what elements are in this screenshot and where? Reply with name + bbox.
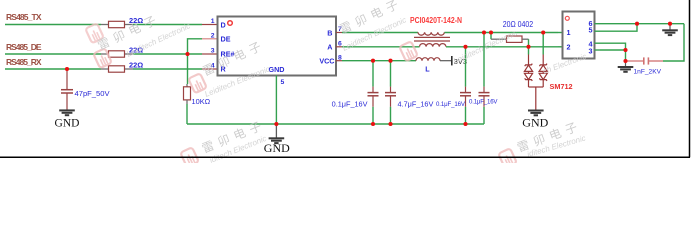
svg-text:47pF_50V: 47pF_50V bbox=[75, 89, 111, 98]
pin 1 lead bbox=[202, 18, 218, 25]
svg-text:B: B bbox=[327, 28, 332, 37]
common mode choke PCI0420T-142-N bbox=[410, 16, 462, 47]
connector J1 bbox=[563, 12, 595, 59]
wire RS485_RX bbox=[5, 68, 101, 70]
pin 5 GND drop bbox=[276, 76, 284, 125]
pin 7 lead B bbox=[336, 26, 342, 33]
pin 3 lead bbox=[202, 48, 218, 55]
watermark stamp bottom bbox=[498, 118, 586, 168]
ground GND under IC bbox=[264, 124, 290, 155]
TVS diode SM712 bbox=[524, 47, 572, 110]
resistor R_DE 22ohm bbox=[101, 46, 143, 58]
svg-text:8: 8 bbox=[338, 54, 342, 61]
junction VCC cap2 bbox=[388, 59, 392, 63]
wire 1nF to pin6 wire bbox=[663, 24, 684, 61]
wire A after choke bbox=[446, 46, 558, 48]
pin 8 lead VCC bbox=[336, 54, 342, 61]
capacitor C3 0.1uF_16V on A line bbox=[436, 47, 471, 124]
ground earth top right bbox=[662, 24, 678, 35]
capacitor 1nF_2KV bbox=[626, 57, 664, 75]
junction cap 1nF left bbox=[623, 59, 627, 63]
wire pin6 to earth bbox=[600, 23, 684, 25]
svg-text:RS485_DE: RS485_DE bbox=[6, 42, 42, 52]
op-amp U1 RS485 transceiver box bbox=[218, 17, 337, 76]
svg-text:5: 5 bbox=[281, 79, 285, 86]
pin 2 lead bbox=[202, 33, 218, 40]
wire ground rail bbox=[187, 123, 484, 125]
svg-text:L: L bbox=[425, 65, 430, 74]
ground earth 1nF bbox=[618, 61, 634, 72]
wire VCC bbox=[342, 60, 416, 62]
wire RS485_TX bbox=[5, 24, 101, 26]
frame border bbox=[0, 0, 690, 157]
wire DE up to pin2 bbox=[188, 39, 203, 54]
svg-text:SM712: SM712 bbox=[550, 82, 573, 91]
capacitor C1 0.1uF_16V bbox=[332, 61, 379, 124]
watermark stamp left bbox=[85, 11, 191, 68]
pin 6 lead bbox=[595, 23, 601, 25]
capacitor C2 4.7uF_16V bbox=[385, 61, 433, 124]
pin 3 lead bbox=[595, 49, 601, 51]
junction rail cap2 bbox=[388, 122, 392, 126]
junction A cap3 bbox=[463, 45, 467, 49]
junction rail cap3 bbox=[463, 122, 467, 126]
svg-text:1: 1 bbox=[567, 28, 571, 37]
junction DE node bbox=[185, 52, 189, 56]
svg-text:5: 5 bbox=[589, 25, 593, 34]
svg-text:4.7μF_16V: 4.7μF_16V bbox=[398, 99, 434, 108]
svg-text:3: 3 bbox=[589, 46, 593, 55]
wire B from pin7 bbox=[342, 32, 418, 34]
pin 1 lead connector bbox=[558, 32, 563, 34]
resistor 20R 0402 termination bbox=[491, 20, 534, 47]
capacitor C4 0.1uF_16V on B line bbox=[469, 33, 498, 125]
svg-text:1: 1 bbox=[211, 18, 215, 25]
net label RS485_DE bbox=[6, 42, 42, 52]
svg-text:GND: GND bbox=[55, 117, 80, 129]
resistor R_RX 22ohm bbox=[101, 61, 143, 73]
junction A 20R bbox=[526, 45, 530, 49]
junction rail cap1 bbox=[371, 122, 375, 126]
net label RS485_RX bbox=[6, 57, 42, 67]
svg-text:RS485_RX: RS485_RX bbox=[6, 57, 42, 67]
pin 4 lead bbox=[595, 42, 601, 44]
wire RS485_DE bbox=[5, 53, 101, 55]
watermark script right bbox=[542, 52, 588, 76]
wire pin4 down bbox=[600, 43, 626, 61]
power 3V3 bbox=[440, 56, 467, 66]
watermark stamp bottom-left bbox=[180, 117, 268, 167]
junction VCC cap1 bbox=[371, 59, 375, 63]
wire B after choke bbox=[445, 32, 559, 34]
pin 2 lead connector bbox=[558, 46, 563, 48]
pin 4 lead bbox=[202, 63, 218, 70]
svg-text:GND: GND bbox=[522, 116, 548, 130]
watermark script over choke bbox=[452, 28, 519, 65]
junction RX node bbox=[65, 67, 69, 71]
wire RX to pin4 bbox=[133, 68, 202, 70]
svg-text:GND: GND bbox=[264, 141, 290, 155]
U1 inversion circle bbox=[228, 21, 233, 26]
junction pin3-pin4 bbox=[623, 48, 627, 52]
wire TX to pin1 bbox=[133, 24, 202, 26]
inductor L bbox=[416, 58, 440, 74]
capacitor 47pF_50V bbox=[61, 69, 110, 110]
wire B to SM712 bbox=[542, 33, 544, 55]
svg-text:2: 2 bbox=[211, 33, 215, 40]
svg-text:RS485_TX: RS485_TX bbox=[6, 12, 42, 22]
svg-text:0.1μF_16V: 0.1μF_16V bbox=[469, 99, 498, 106]
svg-text:A: A bbox=[327, 43, 332, 52]
svg-text:1nF_2KV: 1nF_2KV bbox=[634, 68, 662, 75]
junction earth top bbox=[668, 22, 672, 26]
watermark stamp mid IC bbox=[188, 37, 271, 99]
resistor 10K pulldown bbox=[184, 54, 211, 124]
svg-text:3: 3 bbox=[211, 48, 215, 55]
svg-text:VCC: VCC bbox=[319, 57, 334, 66]
net label RS485_TX bbox=[6, 12, 42, 22]
junction B 20R bbox=[489, 30, 493, 34]
junction B cap4 bbox=[482, 30, 486, 34]
resistor R_TX 22ohm bbox=[101, 16, 143, 27]
wire pin3 bbox=[600, 49, 626, 51]
wire A from pin6 bbox=[342, 46, 420, 48]
junction B SM712 bbox=[541, 30, 545, 34]
svg-text:22Ω: 22Ω bbox=[129, 61, 143, 70]
svg-text:0.1μF_16V: 0.1μF_16V bbox=[436, 101, 466, 108]
svg-text:20Ω 0402: 20Ω 0402 bbox=[503, 20, 534, 29]
ground GND left bbox=[55, 110, 80, 129]
svg-text:PCI0420T-142-N: PCI0420T-142-N bbox=[410, 16, 462, 25]
pin 6 lead A bbox=[336, 41, 342, 48]
junction pin5 rail bbox=[274, 122, 278, 126]
wire DE to pin3 bbox=[133, 53, 202, 55]
svg-text:0.1μF_16V: 0.1μF_16V bbox=[332, 99, 368, 108]
svg-text:2: 2 bbox=[567, 43, 571, 52]
wire pin5 up bbox=[600, 24, 637, 32]
junction pin5-pin6 bbox=[635, 22, 639, 26]
svg-text:DE: DE bbox=[221, 35, 231, 44]
U1 pin names bbox=[221, 20, 335, 74]
svg-text:D: D bbox=[221, 20, 226, 29]
pin 5 lead bbox=[595, 30, 601, 32]
watermark stamp top-middle bbox=[337, 0, 417, 61]
ground GND SM712 bbox=[522, 111, 548, 130]
